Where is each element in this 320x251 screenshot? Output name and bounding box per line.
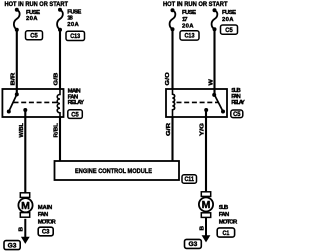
svg-text:W/BL: W/BL: [19, 122, 25, 137]
svg-text:FUSE: FUSE: [222, 10, 236, 16]
svg-text:RELAY: RELAY: [231, 100, 245, 106]
svg-text:20A: 20A: [222, 17, 234, 23]
svg-text:C3: C3: [42, 230, 50, 236]
svg-text:MOTOR: MOTOR: [219, 219, 238, 225]
svg-text:FUSE: FUSE: [26, 10, 40, 16]
svg-text:FUSE: FUSE: [67, 9, 81, 15]
svg-text:ENGINE CONTROL MODULE: ENGINE CONTROL MODULE: [75, 168, 152, 175]
svg-text:C13: C13: [185, 34, 196, 40]
svg-text:B: B: [19, 227, 25, 232]
svg-text:C5: C5: [225, 28, 233, 34]
svg-text:C11: C11: [184, 177, 194, 183]
svg-text:C5: C5: [30, 34, 38, 40]
svg-text:B/R: B/R: [11, 73, 17, 86]
svg-text:R/BL: R/BL: [54, 122, 60, 137]
svg-text:HOT IN RUN OR START: HOT IN RUN OR START: [5, 1, 69, 8]
svg-text:FUSE: FUSE: [182, 10, 196, 16]
svg-text:SUB: SUB: [219, 205, 229, 211]
svg-text:W: W: [208, 78, 214, 85]
svg-text:C13: C13: [70, 34, 81, 40]
svg-text:C5: C5: [233, 112, 241, 118]
svg-text:G3: G3: [8, 243, 18, 249]
svg-text:MAIN: MAIN: [38, 205, 53, 211]
svg-text:17: 17: [182, 17, 188, 23]
svg-text:FAN: FAN: [38, 212, 49, 218]
svg-text:RELAY: RELAY: [68, 100, 85, 106]
svg-text:20A: 20A: [67, 22, 79, 28]
svg-text:FAN: FAN: [219, 212, 230, 218]
svg-text:C5: C5: [71, 112, 79, 118]
svg-text:G3: G3: [189, 242, 199, 248]
svg-text:G/R: G/R: [166, 123, 172, 136]
svg-text:M: M: [202, 199, 211, 211]
svg-text:B: B: [200, 226, 206, 231]
svg-text:Y/G: Y/G: [200, 123, 206, 136]
svg-text:G/O: G/O: [165, 71, 171, 85]
svg-text:G/B: G/B: [54, 73, 60, 86]
svg-text:C1: C1: [223, 231, 230, 237]
svg-text:HOT IN RUN OR START: HOT IN RUN OR START: [163, 1, 228, 8]
svg-text:20A: 20A: [26, 16, 38, 22]
svg-text:MOTOR: MOTOR: [38, 219, 57, 225]
svg-text:20A: 20A: [182, 24, 194, 30]
svg-text:M: M: [21, 200, 30, 212]
svg-text:18: 18: [67, 16, 73, 22]
